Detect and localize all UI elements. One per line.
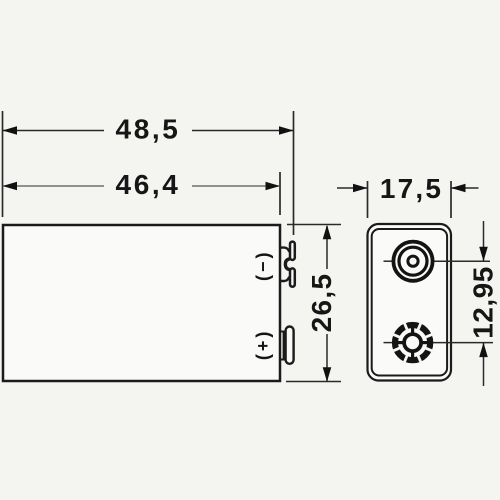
dimension 48,5 : arrowheads [3, 126, 18, 135]
svg-text:(+): (+) [253, 329, 273, 361]
svg-text:12,95: 12,95 [468, 266, 499, 339]
battery body (side view) [3, 225, 280, 381]
dimension 26,5 : dimension line [326, 226, 328, 269]
svg-text:46,4: 46,4 [116, 169, 181, 200]
svg-text:26,5: 26,5 [306, 273, 337, 333]
dimension 17,5 : dimension line with outside arrows [337, 187, 367, 189]
dimension 26,5 : extension line top [287, 224, 341, 226]
top view: outer case outline [368, 224, 452, 381]
positive button terminal (top view) [393, 242, 432, 281]
centre line of positive button [384, 260, 393, 262]
svg-text:48,5: 48,5 [116, 114, 181, 145]
dimension 48,5 : extension line left [2, 111, 4, 217]
dimension 46,4 : arrowheads [3, 182, 18, 191]
centre line of negative snap [384, 342, 393, 344]
dimension 17,5 : extension line left [367, 181, 369, 218]
dimension 48,5 : dimension line [3, 130, 105, 132]
negative snap terminal, side view [280, 242, 295, 287]
top view: inner case outline [372, 229, 447, 376]
dimension 48,5 : extension line right [293, 111, 295, 235]
dimension 46,4 : dimension line [3, 185, 105, 187]
svg-text:(−): (−) [253, 250, 273, 282]
dimension 17,5 : extension line right [450, 181, 452, 218]
dimension 46,4 : extension line right [279, 172, 281, 215]
svg-text:17,5: 17,5 [380, 173, 443, 204]
positive flat terminal, side view [281, 327, 294, 364]
dimension 26,5 : extension line bottom [286, 381, 341, 383]
dimension 12,95 : dimension line with outside arrows [483, 221, 485, 261]
negative snap terminal (top view) [392, 322, 434, 364]
dimension 26,5 : arrowheads [323, 225, 332, 240]
